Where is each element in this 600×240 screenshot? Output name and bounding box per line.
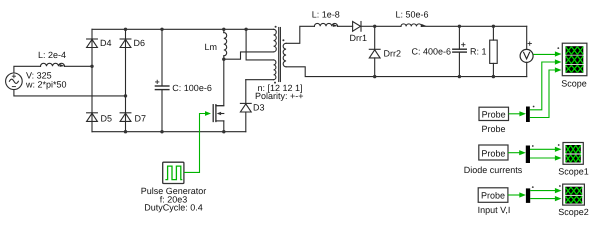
junction C1 bottom on DC- rail: [160, 130, 163, 133]
wire secondary top: [286, 26, 314, 43]
wire W2 bottom to D3: [246, 79, 274, 81]
diode D7: [120, 113, 131, 122]
svg-text:Lm: Lm: [205, 42, 218, 52]
svg-text:Scope: Scope: [561, 78, 587, 88]
junction node bridge left mid (L input): [90, 65, 93, 68]
winding W3 (secondary): [283, 43, 286, 67]
scope block (3 screens): [562, 43, 587, 75]
winding W2 (demag): [274, 60, 276, 80]
junction C1 top on DC+ rail: [160, 28, 163, 31]
svg-text:Probe: Probe: [481, 191, 505, 201]
inductor Lm: [224, 29, 227, 59]
inductor L 50e-6: [401, 24, 426, 27]
junction D6 top on DC+ rail: [124, 28, 127, 31]
scope2 block (2 screens): [563, 184, 585, 205]
AC source V1: [6, 73, 23, 90]
diode D4: [87, 39, 98, 48]
bridge right leg wire: [125, 29, 127, 131]
junction Lm bottom / drain node: [222, 58, 225, 61]
junction C2 top on output rail: [458, 25, 461, 28]
capacitor C 100e-6: [155, 29, 169, 131]
wire Drr1 to L 50e-6: [375, 25, 401, 27]
junction node bridge right mid (source return): [124, 94, 127, 97]
svg-text:Drr1: Drr1: [350, 33, 368, 43]
mux bar 1: [526, 107, 530, 123]
mux2 to scope1 wires: [530, 148, 556, 150]
svg-text:R: 1: R: 1: [470, 46, 487, 56]
svg-text:C: 100e-6: C: 100e-6: [172, 83, 212, 93]
winding W1 (primary): [274, 29, 277, 52]
svg-text:L: 1e-8: L: 1e-8: [312, 10, 340, 20]
tiny marks: [533, 106, 535, 108]
MOSFET Q1: [213, 105, 224, 132]
svg-text:D7: D7: [135, 113, 147, 123]
mux3 to scope2 wires: [530, 190, 556, 192]
junction MOSFET source on DC- rail: [222, 130, 225, 133]
voltmeter V: [520, 26, 533, 76]
gate wire (green): [184, 114, 205, 173]
wire output rail top: [421, 25, 527, 27]
transformer T1: [274, 28, 287, 82]
diode Drr2: [369, 26, 380, 76]
bottom DC rail: [92, 131, 246, 133]
polarity dot W2: [274, 82, 276, 84]
svg-text:Scope2: Scope2: [558, 207, 589, 217]
wire inductor to bridge left leg: [65, 65, 93, 67]
wire source bottom to bridge right leg: [14, 90, 126, 96]
svg-text:L: 2e-4: L: 2e-4: [38, 50, 66, 60]
wire voltmeter to scope (green): [533, 53, 556, 55]
secondary bottom rail: [286, 67, 527, 77]
diode D3: [240, 80, 251, 132]
svg-text:Input V,I: Input V,I: [478, 205, 511, 215]
resistor R 1: [490, 26, 498, 76]
svg-text:D5: D5: [101, 113, 113, 123]
svg-text:D6: D6: [134, 38, 146, 48]
diode Drr1: [353, 22, 375, 32]
wire probe2 to mux: [508, 152, 520, 154]
scope arrows: [555, 51, 562, 56]
svg-text:Drr2: Drr2: [384, 49, 402, 59]
wire probe3 to mux: [508, 194, 520, 196]
svg-text:DutyCycle: 0.4: DutyCycle: 0.4: [144, 203, 203, 213]
probe P2: [479, 145, 508, 160]
inductor L 1e-8: [314, 23, 337, 27]
junction W2 branch on DC+ rail: [244, 28, 247, 31]
polarity dot W3: [282, 39, 284, 41]
svg-text:D3: D3: [253, 102, 265, 112]
junction D7 bottom on DC- rail: [124, 130, 127, 133]
pulse generator block: [163, 162, 184, 183]
svg-text:L: 50e-6: L: 50e-6: [396, 10, 429, 20]
core: [278, 28, 280, 82]
probe P3: [478, 188, 508, 203]
wire Lm bottom to MOSFET drain: [216, 59, 224, 105]
capacitor C 400e-6: [453, 26, 467, 76]
probe P1: [479, 107, 509, 120]
svg-text:Polarity: +-+: Polarity: +-+: [255, 91, 304, 101]
wire to Drr1: [338, 25, 353, 27]
bridge left leg wire: [91, 29, 93, 131]
mux bar 2: [526, 146, 530, 164]
svg-text:w: 2*pi*50: w: 2*pi*50: [25, 79, 67, 89]
wire source top to inductor: [14, 66, 41, 73]
junction Drr2 top on output rail: [373, 25, 376, 28]
svg-text:Scope1: Scope1: [558, 167, 589, 177]
junction Drr2 bottom on output return: [373, 75, 376, 78]
svg-text:Probe: Probe: [481, 124, 505, 134]
junction R1 bottom on output return: [492, 75, 495, 78]
diode D6: [120, 39, 131, 48]
wire probe1 to mux (green): [509, 113, 520, 115]
junction R1 top on output rail: [492, 25, 495, 28]
wire Lm node to winding W1 bottom: [224, 52, 274, 59]
scope1 block (2 screens): [563, 143, 583, 165]
diode D5: [87, 113, 98, 122]
wire rail to winding W2 top: [246, 29, 274, 60]
junction C2 bottom on output return: [458, 75, 461, 78]
mux1 to scope wires (green): [530, 62, 556, 110]
svg-text:Probe: Probe: [481, 148, 505, 158]
svg-text:D4: D4: [100, 38, 112, 48]
svg-text:Diode currents: Diode currents: [464, 165, 523, 175]
mux bar 3: [526, 188, 530, 203]
svg-text:C: 400e-6: C: 400e-6: [412, 46, 452, 56]
top DC rail: [92, 28, 274, 30]
junction Lm top on DC+ rail: [222, 28, 225, 31]
inductor L 2e-4: [41, 63, 65, 67]
polarity dot W1: [275, 26, 277, 28]
svg-text:Probe: Probe: [482, 109, 506, 119]
